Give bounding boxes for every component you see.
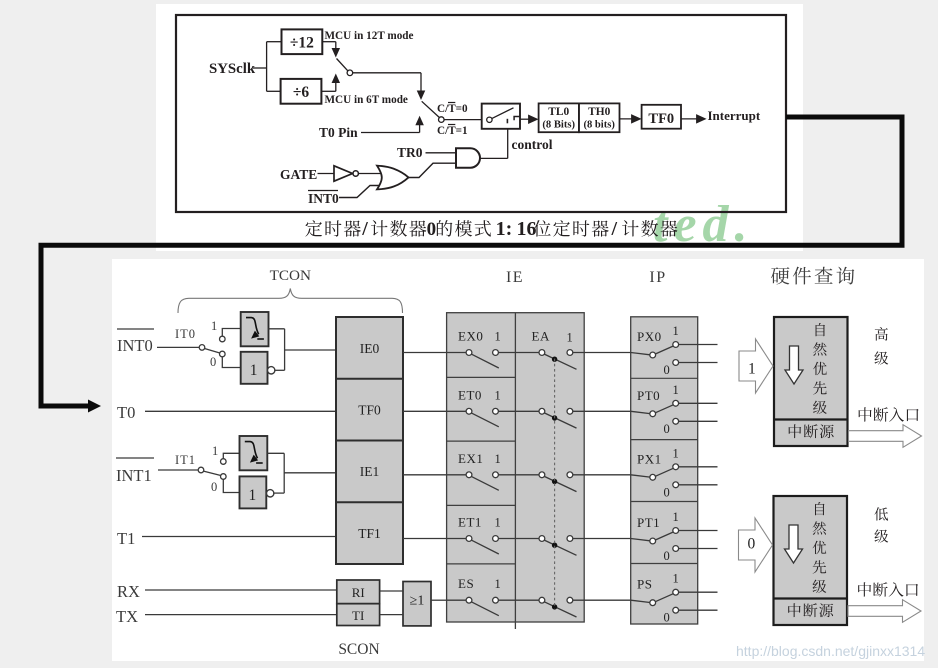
svg-text:1: 1	[673, 446, 679, 460]
wire div6 output with up arrow contact	[321, 90, 335, 92]
wire trunk vertical	[266, 42, 268, 92]
svg-text:EX0: EX0	[458, 329, 483, 344]
EA switch row 3	[539, 472, 545, 478]
wire TF0 out to ET0	[403, 410, 469, 412]
wire contact0 to one box	[222, 357, 240, 368]
svg-text:T0 Pin: T0 Pin	[319, 125, 358, 140]
level box 1 (IT0=0)	[241, 352, 268, 384]
svg-text:TR0: TR0	[397, 145, 423, 160]
svg-text:/: /	[611, 218, 618, 240]
register TH0 (8 bits)	[579, 103, 620, 132]
switch IT0 contact 0	[220, 351, 226, 357]
svg-text:/: /	[361, 218, 368, 240]
wire merged to IE1	[284, 472, 336, 474]
natural priority text low	[815, 502, 825, 515]
svg-text:IE1: IE1	[360, 464, 380, 479]
svg-text:≥1: ≥1	[410, 594, 425, 609]
or-gate U4	[377, 166, 409, 190]
wire PT0 output 1	[679, 402, 718, 404]
svg-text:1: 1	[567, 331, 573, 345]
svg-text:1: 1	[495, 516, 501, 530]
edge detector box (IT1=1)	[240, 436, 268, 470]
svg-text:EX1: EX1	[458, 451, 483, 466]
switch IT0 pole	[199, 345, 205, 351]
svg-text:IE: IE	[506, 269, 524, 286]
wire or-gate to and-gate	[409, 163, 457, 177]
switch pole circle C/T	[439, 117, 445, 123]
wire trunk to div6	[267, 90, 282, 92]
inverter bubble on level box	[268, 367, 275, 374]
inverter bubble on level box row3	[267, 490, 274, 497]
wire contact0 to one box row3	[223, 479, 240, 492]
wire PX0 output 0	[679, 362, 718, 364]
IE internal EA divider	[514, 313, 516, 629]
svg-text:GATE: GATE	[280, 167, 317, 182]
EA switch row 2	[539, 408, 545, 414]
wire T1 to TF1	[142, 536, 336, 538]
svg-text:1: 1	[673, 324, 679, 338]
svg-text:control: control	[512, 137, 553, 152]
big down arrow high	[785, 346, 803, 384]
switch IT1 blade to 0-contact	[204, 471, 221, 475]
wire >=1 to ES	[431, 599, 447, 601]
svg-text:1: 1	[495, 388, 501, 402]
TCON register stack IE0/TF0/IE1/TF1	[336, 317, 403, 564]
svg-text:1: 1	[495, 330, 501, 344]
svg-text:IT0: IT0	[175, 327, 196, 341]
EA switch row 1	[539, 350, 545, 356]
top white panel	[156, 4, 803, 251]
svg-text:TL0: TL0	[548, 106, 569, 118]
interrupt entry text high	[859, 407, 872, 421]
switch blade 12T/6T select	[337, 59, 348, 71]
wire edge box output row3	[267, 452, 284, 454]
svg-text:1: 1	[250, 362, 258, 379]
svg-text:1:: 1:	[496, 218, 513, 240]
label high level	[875, 327, 888, 341]
label low level	[874, 507, 888, 520]
svg-text:0: 0	[664, 422, 670, 436]
switch blade C/T select	[422, 101, 440, 117]
wire PS output 1	[679, 591, 718, 593]
caption: timer/counter0 mode1 16-bit	[305, 220, 322, 237]
wire PT1 output 0	[679, 548, 718, 550]
svg-text:MCU in 12T mode: MCU in 12T mode	[325, 30, 414, 42]
svg-text:0: 0	[664, 485, 670, 499]
svg-text:0: 0	[664, 363, 670, 377]
wire INT1 to switch pole	[158, 469, 198, 471]
wire control box to TL0 with arrow	[520, 118, 533, 120]
wire T0 Pin to up arrow contact	[361, 132, 420, 134]
register TF0	[642, 105, 681, 129]
wire contact1 to edge box	[222, 329, 240, 337]
switch IT0 blade to 0-contact	[205, 349, 220, 354]
switch IT1 contact 1	[221, 459, 227, 465]
svg-text:http://blog.csdn.net/gjinxx131: http://blog.csdn.net/gjinxx1314	[736, 643, 925, 659]
wire contact1 to edge box row3	[223, 453, 240, 458]
and-gate U2	[456, 148, 480, 167]
TCON brace	[178, 289, 403, 314]
control gate box	[482, 104, 520, 129]
wire and-gate output to control box	[481, 157, 508, 159]
divider box /12	[282, 29, 323, 54]
svg-text:0: 0	[664, 611, 670, 625]
EA dashed control line	[554, 359, 556, 609]
svg-text:TX: TX	[116, 607, 138, 626]
register TL0 (8 Bits)	[539, 103, 579, 132]
svg-text:ET0: ET0	[458, 387, 482, 402]
svg-text:TCON: TCON	[270, 267, 311, 284]
svg-text:IP: IP	[649, 269, 666, 286]
svg-text:TH0: TH0	[588, 106, 610, 118]
register RI	[337, 580, 380, 604]
wire not-gate to or-gate	[358, 173, 381, 175]
wire SYSclk to trunk	[253, 67, 267, 69]
svg-text:1: 1	[673, 572, 679, 586]
IP cell dividers	[631, 377, 698, 379]
IE register block	[447, 313, 585, 622]
header hardware-query (CJK)	[771, 267, 789, 284]
svg-text:IT1: IT1	[175, 453, 196, 467]
wire T0 to TF0	[145, 410, 336, 412]
big down arrow low	[785, 525, 803, 563]
svg-text:0: 0	[211, 480, 217, 494]
svg-text:SCON: SCON	[338, 641, 379, 658]
not-gate U3	[334, 166, 353, 181]
svg-text:1: 1	[212, 444, 218, 458]
wire div12 output with down arrow contact	[322, 41, 336, 43]
wire edge box output	[269, 328, 285, 330]
wire merge vertical row1	[284, 329, 286, 371]
svg-text:RI: RI	[352, 585, 365, 600]
IE cell dividers	[447, 376, 516, 378]
wire RI to >=1	[380, 590, 403, 592]
svg-text:T1: T1	[117, 529, 135, 548]
wire CT pole to control gate box	[444, 119, 482, 121]
wire GATE to not-gate	[318, 173, 335, 175]
svg-text:C/T=0: C/T=0	[437, 103, 468, 115]
svg-text:TI: TI	[352, 608, 364, 623]
wire PT0 output 0	[679, 420, 718, 422]
outer box of timer0 mode1 diagram	[176, 15, 786, 212]
thick feedback wire from Interrupt to T0	[41, 117, 902, 406]
switch IT0 contact 1	[220, 336, 226, 342]
interrupt source cell high	[789, 424, 802, 438]
svg-text:EA: EA	[532, 329, 550, 344]
wire PT1 output 1	[679, 530, 718, 532]
svg-text:÷6: ÷6	[293, 84, 310, 101]
wire TX to TI	[145, 614, 337, 616]
svg-text:T0: T0	[117, 403, 135, 422]
svg-text:0: 0	[210, 355, 216, 369]
or-gate GE1 (>=1)	[403, 582, 431, 626]
interrupt entry text low	[858, 582, 871, 596]
wire IE1 out to EX1	[403, 474, 469, 476]
wire PX1 output 1	[679, 466, 718, 468]
wire trunk to div12	[267, 41, 282, 43]
svg-text:PT0: PT0	[637, 388, 660, 403]
svg-text:1: 1	[495, 452, 501, 466]
input level arrow low	[739, 518, 773, 572]
wire IE0 out to EX0	[403, 352, 469, 354]
edge detector box (IT0=1)	[241, 312, 269, 346]
svg-text:SYSclk: SYSclk	[209, 61, 256, 77]
svg-text:TF1: TF1	[358, 526, 381, 541]
wire bubble to merge row3	[273, 492, 284, 494]
svg-text:PX0: PX0	[637, 329, 662, 344]
svg-text:÷12: ÷12	[290, 35, 314, 52]
wire PX1 output 0	[679, 484, 718, 486]
svg-text:ET1: ET1	[458, 515, 482, 530]
svg-text:0: 0	[748, 535, 756, 552]
wire TF0 to Interrupt with arrow	[681, 118, 701, 120]
svg-text:Interrupt: Interrupt	[708, 108, 761, 123]
interrupt entry arrow low	[848, 600, 921, 623]
wire TI to >=1	[380, 614, 403, 616]
svg-text:PT1: PT1	[637, 515, 660, 530]
wire merged to IE0	[285, 349, 336, 351]
svg-text:C/T=1: C/T=1	[437, 125, 468, 137]
svg-text:INT0: INT0	[117, 336, 153, 355]
switch IT1 contact 0	[221, 474, 227, 480]
wire bubble to merge row1	[274, 369, 284, 371]
interrupt entry arrow high	[849, 425, 922, 448]
svg-text:16: 16	[517, 218, 537, 240]
wire INT0 to or-gate	[339, 186, 380, 198]
interrupt source cell low	[788, 603, 801, 617]
wire RX to RI	[145, 589, 337, 591]
switch pole circle 12T/6T	[347, 70, 353, 76]
priority block low	[774, 496, 848, 625]
switch IT1 pole	[198, 467, 204, 473]
EA switch row 5	[539, 597, 545, 603]
natural priority text high	[816, 323, 826, 336]
divider box /6	[281, 79, 322, 104]
svg-text:1: 1	[211, 319, 217, 333]
wire PX0 output 1	[679, 344, 718, 346]
EA switch row 4	[539, 536, 545, 542]
bottom white panel	[112, 259, 924, 661]
svg-text:1: 1	[495, 577, 501, 591]
wire TH0 to TF0 with arrow	[620, 118, 637, 120]
wire TR0 to and-gate	[426, 152, 457, 154]
svg-text:MCU in 6T mode: MCU in 6T mode	[325, 94, 408, 106]
svg-text:1: 1	[748, 361, 756, 378]
svg-text:INT1: INT1	[116, 466, 152, 485]
svg-text:(8 bits): (8 bits)	[583, 120, 615, 131]
svg-text:1: 1	[249, 487, 257, 504]
wire PS output 0	[679, 609, 718, 611]
svg-text:PX1: PX1	[637, 451, 662, 466]
svg-text:0: 0	[664, 549, 670, 563]
wire INT0 to switch pole	[157, 346, 199, 348]
svg-text:(8 Bits): (8 Bits)	[542, 120, 575, 131]
IP register block	[631, 317, 698, 624]
input level arrow high	[739, 339, 773, 393]
register TI	[337, 604, 380, 626]
wire TF1 out to ET1	[403, 538, 469, 540]
svg-text:0: 0	[427, 219, 437, 240]
svg-text:TF0: TF0	[358, 403, 381, 418]
wire merge vertical row3	[283, 453, 285, 493]
svg-text:IE0: IE0	[360, 341, 380, 356]
svg-text:RX: RX	[117, 582, 140, 601]
svg-text:1: 1	[673, 510, 679, 524]
svg-text:PS: PS	[637, 577, 652, 592]
svg-text:INT0: INT0	[308, 191, 339, 206]
wire pole to CT switch	[353, 72, 421, 74]
level box 1 (IT1=0)	[240, 476, 267, 508]
priority block high	[774, 317, 848, 446]
svg-text:1: 1	[673, 383, 679, 397]
svg-text:ES: ES	[458, 576, 474, 591]
svg-text:TF0: TF0	[648, 111, 674, 127]
